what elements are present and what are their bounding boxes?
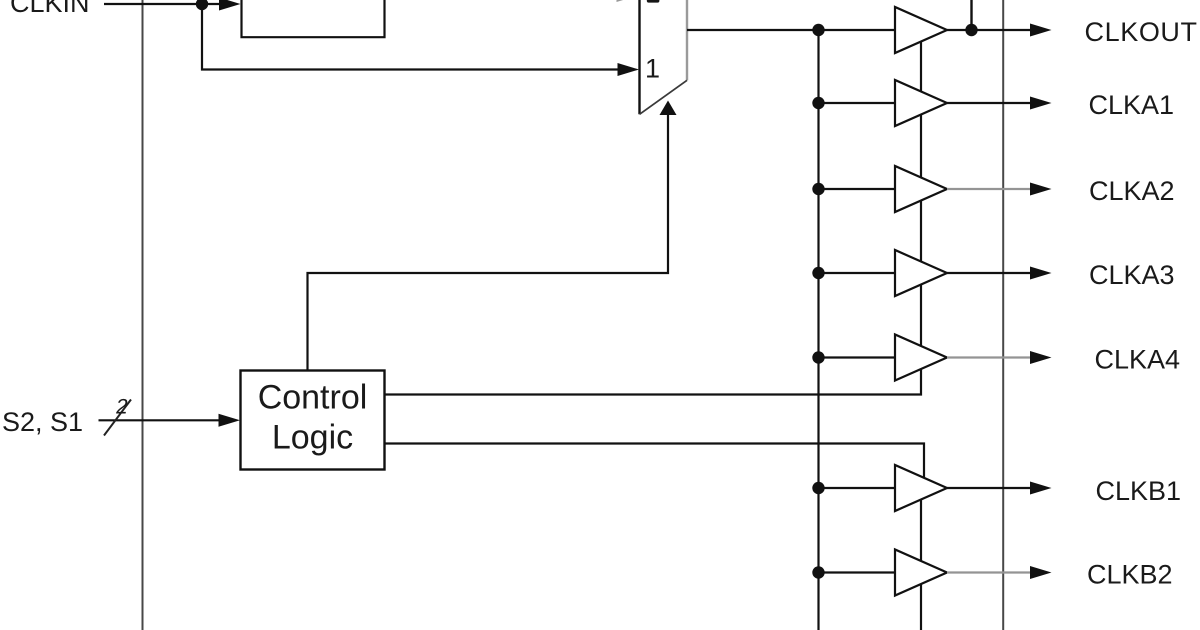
arrowhead into mux input 1 <box>618 63 640 76</box>
buffer CLKA1 <box>895 80 947 126</box>
wire stub row7 <box>819 571 896 573</box>
enable rail segment 6 <box>920 584 922 630</box>
node junction trunk row3 <box>812 183 824 195</box>
enable net B from control logic <box>385 444 925 478</box>
buffer CLKA4 <box>895 335 947 381</box>
arrowhead CLKA2 <box>1030 183 1052 196</box>
buffer CLKOUT <box>895 7 947 53</box>
wire S2,S1 into control logic <box>99 419 222 421</box>
arrowhead into control logic <box>219 414 241 427</box>
node junction trunk row2 <box>812 97 824 109</box>
svg-text:CLKA3: CLKA3 <box>1089 260 1175 290</box>
arrowhead into divider box <box>219 0 241 11</box>
svg-text:Control: Control <box>258 379 368 417</box>
arrowhead CLKB2 <box>1030 566 1052 579</box>
wire stub row6 <box>819 487 896 489</box>
wire CLKIN bypass to mux input 1 <box>202 4 618 70</box>
svg-text:CLKA1: CLKA1 <box>1089 90 1175 120</box>
node junction trunk row5 <box>812 351 824 363</box>
arrowhead CLKA3 <box>1030 267 1052 280</box>
wire mux output to CLKOUT buffer <box>687 29 895 31</box>
wire CLKOUT feedback up <box>970 0 972 30</box>
wire CLKA3 output <box>947 272 1031 274</box>
divider box (cut off at top) <box>242 0 385 37</box>
buffer CLKB2 <box>895 550 947 596</box>
enable rail segment 3 <box>920 201 922 262</box>
wire stub row4 <box>819 272 896 274</box>
svg-text:CLKB2: CLKB2 <box>1087 560 1173 590</box>
svg-text:CLKOUT: CLKOUT <box>1085 17 1198 47</box>
svg-text:CLKIN: CLKIN <box>10 0 90 18</box>
node junction trunk row4 <box>812 267 824 279</box>
node junction trunk row6 <box>812 482 824 494</box>
node junction trunk row7 <box>812 566 824 578</box>
control logic box U2 <box>241 371 385 470</box>
wire stub row5 <box>819 356 896 358</box>
bus width slash <box>104 400 131 436</box>
enable rail segment 5 <box>920 500 922 562</box>
wire CLKA1 output <box>947 102 1031 104</box>
enable net A from control logic <box>385 369 922 395</box>
arrowhead CLKB1 <box>1030 482 1052 495</box>
arrowhead CLKOUT <box>1030 24 1052 37</box>
mux input 0 arrowhead fragment <box>617 0 639 2</box>
wire stub row2 <box>819 102 896 104</box>
chip boundary right <box>1002 0 1004 630</box>
node junction CLKOUT feedback <box>965 24 977 36</box>
buffer CLKB1 <box>895 465 947 511</box>
mux input label 0 (cut) <box>647 0 660 3</box>
chip boundary left <box>142 0 144 630</box>
svg-text:Logic: Logic <box>272 419 353 457</box>
clock trunk net <box>817 30 819 630</box>
svg-text:CLKA4: CLKA4 <box>1095 345 1181 375</box>
arrowhead select into mux <box>660 101 677 116</box>
enable rail segment 4 <box>920 285 922 347</box>
enable rail segment 1 <box>920 42 922 92</box>
arrowhead CLKA1 <box>1030 97 1052 110</box>
svg-text:S2, S1: S2, S1 <box>2 407 83 437</box>
svg-text:CLKA2: CLKA2 <box>1089 176 1175 206</box>
wire CLKA4 output (gray) <box>947 356 1031 358</box>
buffer CLKA2 <box>895 166 947 212</box>
wire CLKIN to divider box <box>104 3 222 5</box>
mux U1 (cut off at top) <box>638 0 640 114</box>
wire CLKOUT output <box>947 29 1031 31</box>
node junction trunk row1 <box>812 24 824 36</box>
svg-text:CLKB1: CLKB1 <box>1096 476 1182 506</box>
svg-text:1: 1 <box>645 54 660 84</box>
wire stub row3 <box>819 188 896 190</box>
buffer CLKA3 <box>895 250 947 296</box>
wire CLKB1 output <box>947 487 1031 489</box>
wire CLKB2 output (gray) <box>947 571 1031 573</box>
enable rail segment 2 <box>920 115 922 178</box>
node junction on CLKIN wire <box>196 0 208 10</box>
mux select wire from control logic <box>308 113 669 370</box>
wire CLKA2 output (gray) <box>947 188 1031 190</box>
arrowhead CLKA4 <box>1030 351 1052 364</box>
